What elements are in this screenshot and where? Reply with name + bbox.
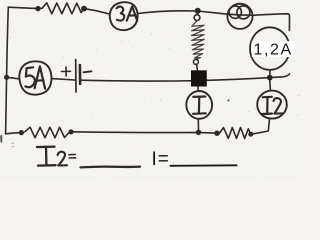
svg-text:I=: I= [152,149,170,170]
svg-text:1,2A: 1,2A [254,42,293,59]
